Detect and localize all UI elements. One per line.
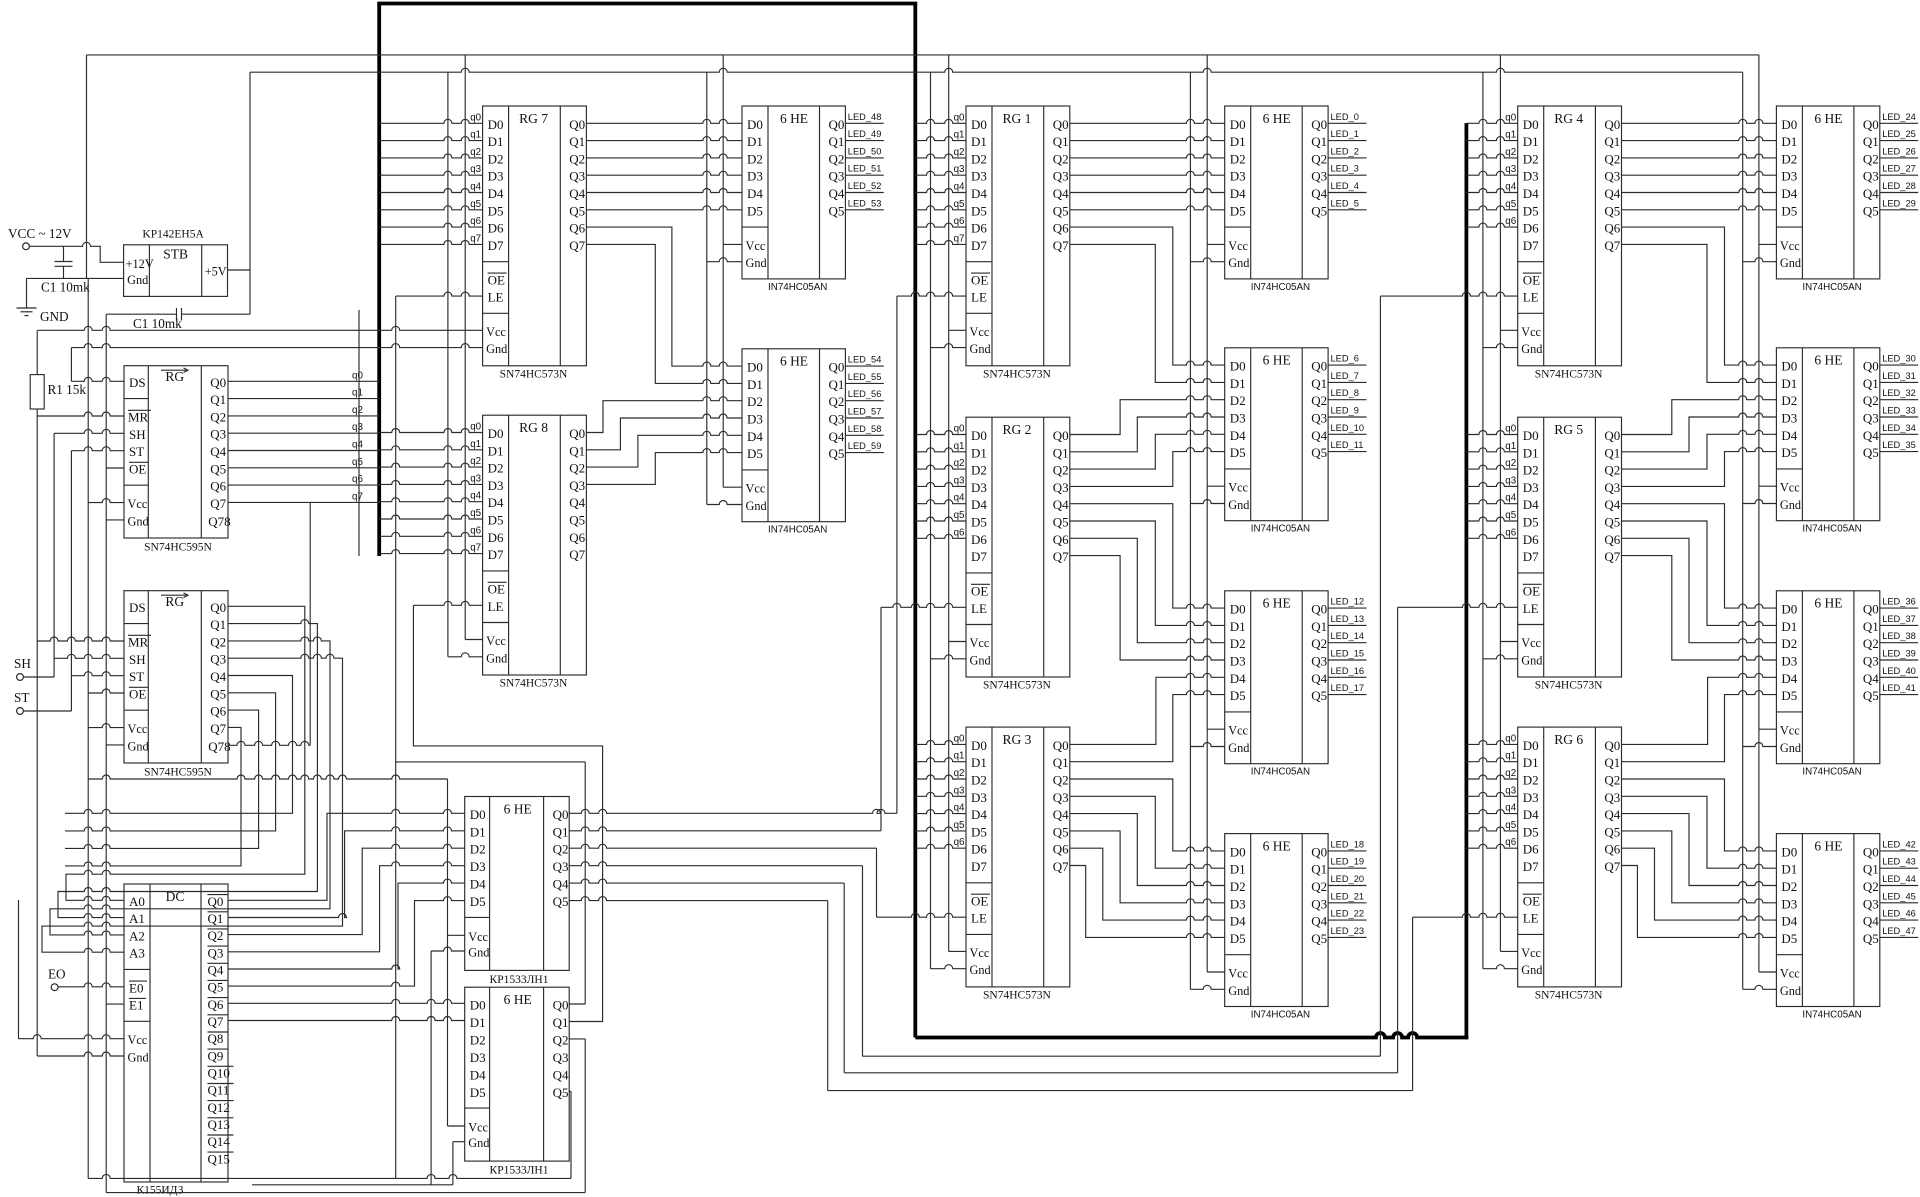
hex inverter heD 6 HE (IN74HC05AN) <box>1225 834 1328 1007</box>
svg-text:IN74HC05AN: IN74HC05AN <box>1802 282 1861 293</box>
svg-text:LED_10: LED_10 <box>1331 423 1365 433</box>
svg-text:D3: D3 <box>1230 411 1246 426</box>
svg-text:LE: LE <box>971 290 987 305</box>
svg-text:6 HE: 6 HE <box>1814 838 1842 853</box>
wire DC Q4 to KP1 D4 <box>228 879 465 969</box>
svg-text:RG 8: RG 8 <box>519 420 548 435</box>
wire Vcc tap <box>723 243 742 245</box>
svg-text:RG 2: RG 2 <box>1003 422 1032 437</box>
svg-text:q1: q1 <box>352 388 363 399</box>
svg-text:Gnd: Gnd <box>1780 741 1801 755</box>
terminal ST <box>17 708 24 715</box>
svg-text:D0: D0 <box>1523 428 1539 443</box>
svg-text:q0: q0 <box>954 112 965 123</box>
svg-text:LED_0: LED_0 <box>1331 112 1359 122</box>
node q6 input stub <box>379 532 482 536</box>
svg-text:Q1: Q1 <box>1053 755 1069 770</box>
svg-text:D3: D3 <box>470 1050 486 1065</box>
svg-text:Q0: Q0 <box>1311 602 1327 617</box>
node q6 input stub <box>915 534 966 538</box>
svg-text:Q2: Q2 <box>569 461 585 476</box>
svg-text:D5: D5 <box>1523 203 1539 218</box>
net LED_48 <box>845 122 883 124</box>
node q1 input stub <box>1466 758 1517 762</box>
svg-text:q6: q6 <box>1505 837 1516 848</box>
wire Gnd tap <box>1743 985 1777 989</box>
svg-text:IN74HC05AN: IN74HC05AN <box>1251 767 1310 778</box>
svg-text:q2: q2 <box>470 147 481 158</box>
svg-text:Vcc: Vcc <box>746 239 766 253</box>
node q5 input stub <box>915 827 966 831</box>
net LED_38 <box>1880 642 1918 644</box>
svg-text:D5: D5 <box>1523 824 1539 839</box>
svg-text:D0: D0 <box>470 807 486 822</box>
wire RG6 Q2-7 to heH #4 <box>1622 848 1777 920</box>
vertical parallel to bus1 <box>358 310 360 556</box>
svg-text:D7: D7 <box>971 238 987 253</box>
left rail B (+5V) <box>105 314 107 1192</box>
wire Gnd tap <box>1483 344 1518 348</box>
node q0 input stub <box>915 431 966 435</box>
svg-text:SH: SH <box>129 652 146 667</box>
node q3 input stub <box>915 792 966 796</box>
svg-text:D5: D5 <box>470 1085 486 1100</box>
svg-text:Q3: Q3 <box>829 412 845 427</box>
svg-text:D7: D7 <box>971 859 987 874</box>
wire RG2 Q0-3 to heB #3 <box>1070 448 1225 487</box>
Gnd rail RG7/RG8 column <box>447 72 449 657</box>
svg-text:LED_13: LED_13 <box>1331 614 1365 624</box>
svg-text:Q4: Q4 <box>569 186 585 201</box>
svg-text:6 HE: 6 HE <box>1814 353 1842 368</box>
svg-text:Q1: Q1 <box>1311 619 1327 634</box>
svg-text:Q0: Q0 <box>1053 117 1069 132</box>
node q1 input stub <box>228 398 379 400</box>
svg-text:q5: q5 <box>352 457 363 468</box>
svg-text:D4: D4 <box>1523 807 1539 822</box>
svg-text:LED_29: LED_29 <box>1882 198 1916 208</box>
svg-text:Q2: Q2 <box>829 394 845 409</box>
svg-text:LED_53: LED_53 <box>848 198 882 208</box>
svg-text:Q4: Q4 <box>1863 914 1879 929</box>
svg-text:Q3: Q3 <box>210 427 226 442</box>
svg-text:q6: q6 <box>470 216 481 227</box>
svg-text:IN74HC05AN: IN74HC05AN <box>1251 1010 1310 1021</box>
svg-text:IN74HC05AN: IN74HC05AN <box>768 282 827 293</box>
node q0 input stub <box>379 119 482 123</box>
svg-text:LED_48: LED_48 <box>848 112 882 122</box>
wire OE #1 <box>106 467 124 469</box>
svg-text:Q2: Q2 <box>1863 879 1879 894</box>
svg-text:Q5: Q5 <box>553 1085 569 1100</box>
svg-text:Q4: Q4 <box>1053 807 1069 822</box>
Gnd rail 6HE A-D column <box>1189 72 1191 989</box>
svg-text:D0: D0 <box>1781 844 1797 859</box>
net LED_5 <box>1328 209 1366 211</box>
svg-text:Vcc: Vcc <box>1521 636 1541 650</box>
latch RG7 RG 7 (SN74HC573N) <box>483 106 587 366</box>
wire RG1 Q5 to D5 <box>1070 206 1225 210</box>
svg-text:Q1: Q1 <box>210 617 226 632</box>
wire EO to E0 <box>58 983 124 987</box>
net LED_22 <box>1328 919 1366 921</box>
svg-text:Q2: Q2 <box>1863 393 1879 408</box>
hex inverter heE 6 HE (IN74HC05AN) <box>1776 106 1879 279</box>
net LED_34 <box>1880 433 1918 435</box>
svg-text:Q5: Q5 <box>1604 515 1620 530</box>
svg-text:LED_42: LED_42 <box>1882 839 1916 849</box>
svg-text:Q6: Q6 <box>210 704 226 719</box>
node q1 input stub <box>379 446 482 450</box>
svg-text:LED_17: LED_17 <box>1331 683 1365 693</box>
svg-text:Q3: Q3 <box>569 169 585 184</box>
hex inverter heC 6 HE (IN74HC05AN) <box>1225 591 1328 764</box>
svg-text:D1: D1 <box>1781 376 1797 391</box>
svg-text:Q0: Q0 <box>208 894 224 909</box>
svg-text:Q0: Q0 <box>1311 117 1327 132</box>
bus thick bottom horizontal <box>915 1033 1468 1038</box>
svg-text:Q14: Q14 <box>208 1134 231 1149</box>
svg-text:Vcc: Vcc <box>1780 239 1800 253</box>
svg-text:q7: q7 <box>954 233 965 244</box>
svg-text:Q6: Q6 <box>1053 221 1069 236</box>
wire RG6 Q2-7 to heH #5 <box>1622 866 1777 938</box>
svg-text:Gnd: Gnd <box>1780 256 1801 270</box>
net LED_51 <box>845 174 883 176</box>
svg-text:Q3: Q3 <box>1311 169 1327 184</box>
wire RG7 Q0 to D0 <box>586 119 742 123</box>
svg-text:Q1: Q1 <box>1863 619 1879 634</box>
svg-text:Gnd: Gnd <box>128 739 149 753</box>
svg-text:Q1: Q1 <box>1604 134 1620 149</box>
wire DC Gnd <box>37 1052 124 1056</box>
wire RG4 Q2 to D2 <box>1622 154 1777 158</box>
svg-text:D4: D4 <box>1781 671 1797 686</box>
wire Vcc tap <box>1500 950 1517 952</box>
svg-text:D5: D5 <box>971 515 987 530</box>
svg-text:D4: D4 <box>971 186 987 201</box>
svg-text:Q0: Q0 <box>1863 117 1879 132</box>
svg-text:LED_16: LED_16 <box>1331 666 1365 676</box>
svg-text:Q5: Q5 <box>829 446 845 461</box>
net LED_55 <box>845 382 883 384</box>
svg-text:q4: q4 <box>470 182 481 193</box>
wire Gnd tap <box>1743 500 1777 504</box>
svg-text:Gnd: Gnd <box>1521 963 1542 977</box>
svg-text:Q1: Q1 <box>569 443 585 458</box>
wire ST #2 <box>71 672 124 676</box>
svg-text:D3: D3 <box>971 169 987 184</box>
svg-text:q1: q1 <box>1505 441 1516 452</box>
latch RG3 RG 3 (SN74HC573N) <box>966 727 1070 987</box>
net LED_45 <box>1880 902 1918 904</box>
net LED_58 <box>845 434 883 436</box>
node q5 input stub <box>915 206 966 210</box>
svg-text:E0: E0 <box>129 980 143 995</box>
svg-text:Gnd: Gnd <box>746 499 767 513</box>
wire Vcc tap <box>949 641 966 643</box>
node q2 input stub <box>1466 775 1517 779</box>
svg-text:LED_36: LED_36 <box>1882 597 1916 607</box>
svg-text:Q7: Q7 <box>1053 859 1069 874</box>
svg-text:OE: OE <box>129 462 146 477</box>
wire MR #1 <box>37 412 124 416</box>
svg-text:D6: D6 <box>971 221 987 236</box>
svg-text:q7: q7 <box>352 491 363 502</box>
svg-text:Q4: Q4 <box>829 186 845 201</box>
wire Gnd tap <box>707 258 742 262</box>
svg-text:q5: q5 <box>470 508 481 519</box>
svg-text:OE: OE <box>1523 584 1540 599</box>
svg-text:D5: D5 <box>1230 445 1246 460</box>
wire Vcc tap <box>1759 485 1777 487</box>
ground symbol GND <box>26 278 28 308</box>
svg-text:Gnd: Gnd <box>486 651 507 665</box>
wire RG2 Q4-7 to heC #3 <box>1070 556 1225 660</box>
+5V top rail <box>87 54 1759 56</box>
svg-text:Vcc: Vcc <box>746 482 766 496</box>
svg-text:SN74HC573N: SN74HC573N <box>1535 368 1603 380</box>
svg-text:D4: D4 <box>1230 671 1246 686</box>
svg-text:Q2: Q2 <box>1053 463 1069 478</box>
svg-text:Q7: Q7 <box>569 547 585 562</box>
svg-text:D0: D0 <box>971 738 987 753</box>
wire Vcc tap <box>1759 971 1777 973</box>
svg-text:q4: q4 <box>352 440 363 451</box>
svg-text:RG 6: RG 6 <box>1554 732 1583 747</box>
wire RG6 Q01 to heG #0 <box>1622 673 1777 744</box>
wire RG7 Q2 to D2 <box>586 154 742 158</box>
svg-text:LED_51: LED_51 <box>848 164 882 174</box>
wire RG6 Q01 to heG #1 <box>1622 691 1777 762</box>
wire KP2 Q5 drop to bottom line 1 <box>570 1091 572 1178</box>
svg-text:IN74HC05AN: IN74HC05AN <box>1802 1010 1861 1021</box>
svg-text:q1: q1 <box>954 441 965 452</box>
wire ST #1 <box>71 447 124 451</box>
svg-text:q1: q1 <box>954 751 965 762</box>
svg-text:D0: D0 <box>1523 738 1539 753</box>
svg-text:SH: SH <box>14 656 31 671</box>
node q4 input stub <box>1466 500 1517 504</box>
wire RG7 Q5 to D5 <box>586 206 742 210</box>
wire OE #2 <box>88 689 124 693</box>
svg-text:D3: D3 <box>747 169 763 184</box>
svg-text:Vcc: Vcc <box>486 634 506 648</box>
svg-text:Vcc: Vcc <box>970 946 990 960</box>
svg-text:q7: q7 <box>470 543 481 554</box>
svg-text:D0: D0 <box>971 117 987 132</box>
svg-text:Gnd: Gnd <box>746 256 767 270</box>
svg-text:LED_23: LED_23 <box>1331 926 1365 936</box>
svg-text:Q2: Q2 <box>1604 773 1620 788</box>
svg-text:+5V: +5V <box>205 265 227 279</box>
Gnd rail RG1-3 column <box>930 72 932 969</box>
svg-text:Q4: Q4 <box>1604 807 1620 822</box>
svg-text:Q4: Q4 <box>1604 497 1620 512</box>
svg-text:q2: q2 <box>954 458 965 469</box>
svg-text:Q3: Q3 <box>208 945 224 960</box>
svg-text:Q5: Q5 <box>1311 445 1327 460</box>
svg-text:Q1: Q1 <box>1863 376 1879 391</box>
svg-text:Q4: Q4 <box>1604 186 1620 201</box>
node q5 input stub <box>379 515 482 519</box>
svg-text:D2: D2 <box>1781 151 1797 166</box>
svg-text:D7: D7 <box>1523 238 1539 253</box>
wire Gnd #1 <box>106 519 124 521</box>
net LED_15 <box>1328 659 1366 661</box>
svg-text:D3: D3 <box>1781 896 1797 911</box>
svg-text:q4: q4 <box>1505 803 1516 814</box>
svg-text:D2: D2 <box>1230 879 1246 894</box>
svg-text:D0: D0 <box>971 428 987 443</box>
svg-text:OE: OE <box>129 687 146 702</box>
svg-text:D5: D5 <box>1781 445 1797 460</box>
svg-text:D4: D4 <box>1781 428 1797 443</box>
svg-text:LED_8: LED_8 <box>1331 388 1359 398</box>
svg-text:КР1533ЛН1: КР1533ЛН1 <box>490 974 549 986</box>
latch RG2 RG 2 (SN74HC573N) <box>966 417 1070 677</box>
net LED_39 <box>1880 659 1918 661</box>
svg-text:D0: D0 <box>1230 359 1246 374</box>
svg-text:SN74HC573N: SN74HC573N <box>983 989 1051 1001</box>
wire RG5 Q0-3 to heF #1 <box>1622 413 1777 452</box>
net LED_19 <box>1328 867 1366 869</box>
net LED_41 <box>1880 694 1918 696</box>
wire bottom line 2 from KP2 Q2 <box>106 1192 585 1194</box>
svg-text:D2: D2 <box>1523 463 1539 478</box>
node q3 input stub <box>1466 792 1517 796</box>
svg-text:Q0: Q0 <box>1604 428 1620 443</box>
svg-text:D4: D4 <box>1523 497 1539 512</box>
wire LE RG3 from KP1 Q2 <box>569 844 876 848</box>
svg-text:q4: q4 <box>954 182 965 193</box>
node q4 input stub <box>915 189 966 193</box>
svg-text:D3: D3 <box>1230 654 1246 669</box>
svg-text:q6: q6 <box>1505 527 1516 538</box>
svg-text:LED_4: LED_4 <box>1331 181 1359 191</box>
svg-text:LED_6: LED_6 <box>1331 354 1359 364</box>
svg-text:LED_18: LED_18 <box>1331 839 1365 849</box>
svg-text:Q1: Q1 <box>1311 376 1327 391</box>
svg-text:A1: A1 <box>129 911 145 926</box>
svg-text:Q4: Q4 <box>1053 186 1069 201</box>
net LED_6 <box>1328 364 1366 366</box>
svg-text:D6: D6 <box>971 842 987 857</box>
svg-text:D0: D0 <box>470 998 486 1013</box>
svg-text:Q4: Q4 <box>1053 497 1069 512</box>
svg-text:C1 10mk: C1 10mk <box>133 316 182 331</box>
svg-text:Q2: Q2 <box>1311 636 1327 651</box>
svg-text:D2: D2 <box>470 1032 486 1047</box>
svg-text:Q3: Q3 <box>1311 896 1327 911</box>
svg-text:6 HE: 6 HE <box>504 992 532 1007</box>
svg-text:D4: D4 <box>971 497 987 512</box>
net LED_54 <box>845 365 883 367</box>
decoder DC (K155ID3) <box>124 884 228 1182</box>
node q1 input stub <box>1466 448 1517 452</box>
wire RG595#2 Q2 to DC A2 <box>50 637 330 935</box>
hex inverter 6 HE (KR1533LN1) <box>465 987 570 1161</box>
svg-text:Q3: Q3 <box>1311 654 1327 669</box>
node q2 input stub <box>1466 154 1517 158</box>
latch RG4 RG 4 (SN74HC573N) <box>1518 106 1622 366</box>
svg-text:Q4: Q4 <box>553 877 569 892</box>
svg-text:D3: D3 <box>747 412 763 427</box>
svg-text:Q4: Q4 <box>569 495 585 510</box>
svg-text:D1: D1 <box>470 1015 486 1030</box>
svg-text:Q4: Q4 <box>208 963 224 978</box>
wire RG2 Q4-7 to heC #2 <box>1070 538 1225 642</box>
svg-text:D1: D1 <box>470 824 486 839</box>
svg-text:D7: D7 <box>488 238 504 253</box>
wire LE RG1 from KP1 Q0 <box>569 809 897 813</box>
net LED_43 <box>1880 867 1918 869</box>
voltage regulator STB KP142EH5A <box>124 245 228 297</box>
svg-text:Q5: Q5 <box>1863 931 1879 946</box>
node q0 input stub <box>228 380 379 382</box>
svg-text:q2: q2 <box>954 768 965 779</box>
svg-text:SN74HC595N: SN74HC595N <box>144 542 212 554</box>
node q6 input stub <box>915 223 966 227</box>
wire Vcc tap <box>1207 243 1225 245</box>
wire +5V feed to KP1533 Vcc rail <box>88 775 447 779</box>
svg-text:D3: D3 <box>488 169 504 184</box>
svg-text:q4: q4 <box>1505 493 1516 504</box>
wire RG3 Q2-7 to heD #1 <box>1070 796 1225 868</box>
capacitor C1 10mk (input) <box>55 261 73 263</box>
wire RG595#2 Q6 down-left <box>65 710 259 848</box>
svg-text:IN74HC05AN: IN74HC05AN <box>1251 524 1310 535</box>
svg-text:q2: q2 <box>1505 458 1516 469</box>
svg-text:Gnd: Gnd <box>128 1051 149 1065</box>
svg-text:Q5: Q5 <box>569 203 585 218</box>
svg-text:LED_14: LED_14 <box>1331 631 1365 641</box>
svg-text:SH: SH <box>129 427 146 442</box>
terminal VCC ~ 12V <box>23 243 30 250</box>
net LED_30 <box>1880 364 1918 366</box>
net LED_52 <box>845 192 883 194</box>
svg-text:q0: q0 <box>954 733 965 744</box>
wire SH net <box>23 676 54 678</box>
svg-text:DS: DS <box>129 600 146 615</box>
svg-text:Q1: Q1 <box>1863 134 1879 149</box>
svg-text:Q5: Q5 <box>210 461 226 476</box>
svg-text:RG 4: RG 4 <box>1554 111 1583 126</box>
svg-text:D3: D3 <box>1230 896 1246 911</box>
svg-text:D6: D6 <box>1523 221 1539 236</box>
svg-text:IN74HC05AN: IN74HC05AN <box>1251 282 1310 293</box>
svg-text:Q0: Q0 <box>553 807 569 822</box>
wire Vcc tap <box>1500 641 1517 643</box>
svg-text:LED_22: LED_22 <box>1331 909 1365 919</box>
latch RG5 RG 5 (SN74HC573N) <box>1518 417 1622 677</box>
node q4 input stub <box>228 450 379 452</box>
svg-text:D4: D4 <box>1781 914 1797 929</box>
svg-text:6 HE: 6 HE <box>1263 353 1291 368</box>
svg-text:Q11: Q11 <box>208 1083 230 1098</box>
svg-text:D1: D1 <box>1230 619 1246 634</box>
svg-text:6 HE: 6 HE <box>1814 596 1842 611</box>
svg-text:D2: D2 <box>971 463 987 478</box>
svg-text:LED_30: LED_30 <box>1882 354 1916 364</box>
wire RG595#2 Q7 down-left <box>65 727 241 866</box>
svg-text:LED_52: LED_52 <box>848 181 882 191</box>
svg-text:D0: D0 <box>488 117 504 132</box>
svg-text:Q0: Q0 <box>1311 359 1327 374</box>
svg-text:ST: ST <box>14 690 29 705</box>
svg-text:Gnd: Gnd <box>1780 498 1801 512</box>
svg-text:Q5: Q5 <box>1311 688 1327 703</box>
